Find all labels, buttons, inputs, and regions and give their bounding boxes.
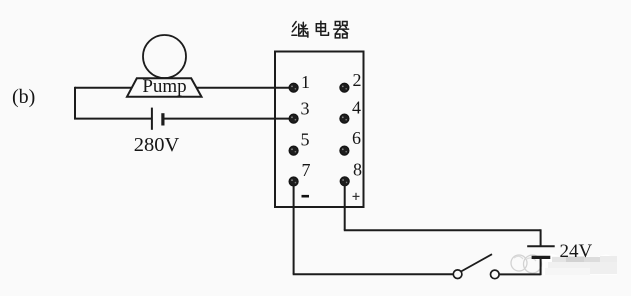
pin 5: [289, 146, 298, 155]
battery B1 long plate: [151, 108, 153, 130]
wire battery-left horizontal: [74, 118, 152, 120]
pump base trapezoid: [127, 78, 202, 96]
minus polarity mark at pin 7: [302, 195, 310, 198]
wire battery bottom vertical: [540, 257, 542, 275]
wire left vertical: [74, 87, 76, 120]
char 器: [334, 22, 349, 38]
svg-text:6: 6: [352, 128, 361, 148]
wire battery-right to pin 3: [164, 118, 294, 120]
svg-text:4: 4: [352, 98, 361, 118]
pin 6: [340, 146, 349, 155]
svg-text:3: 3: [301, 99, 310, 119]
wire pin 7 down: [293, 182, 295, 275]
watermark mosaic blob: [543, 254, 617, 275]
pump motor circle M1: [143, 35, 186, 78]
char 继: [292, 22, 308, 38]
svg-text:(b): (b): [12, 86, 35, 108]
wire switch to battery bottom: [499, 273, 541, 275]
svg-text:1: 1: [301, 72, 310, 92]
svg-text:Pump: Pump: [142, 76, 186, 97]
wire pin 8 horizontal to battery: [344, 229, 541, 231]
pin 4: [340, 114, 349, 123]
pin 2: [340, 83, 349, 92]
pin 7: [289, 177, 298, 186]
wire pump-left horizontal: [75, 87, 134, 89]
pin 1: [289, 83, 298, 92]
svg-text:2: 2: [353, 70, 362, 90]
svg-text:24V: 24V: [560, 241, 593, 262]
wire pump-right to pin 1: [195, 87, 294, 89]
wire bottom horizontal to switch: [293, 273, 454, 275]
switch S1 lever: [461, 254, 492, 271]
battery B2 long plate: [527, 245, 555, 247]
battery B1 short plate: [161, 113, 164, 125]
plus polarity mark at pin 8: [353, 193, 360, 200]
char 电: [316, 21, 328, 35]
svg-text:280V: 280V: [134, 134, 180, 156]
svg-text:8: 8: [353, 160, 362, 180]
pin 8: [340, 177, 349, 186]
relay title 继电器 (drawn glyphs): [292, 21, 349, 38]
pin 3: [289, 114, 298, 123]
wire down to battery top: [540, 229, 542, 246]
switch S1 right contact: [491, 270, 500, 279]
svg-text:7: 7: [302, 160, 311, 180]
wire pin 8 down: [344, 181, 346, 230]
watermark remnant circles: [511, 255, 542, 273]
svg-text:5: 5: [301, 130, 310, 150]
switch S1 left contact: [453, 270, 462, 279]
battery B2 short plate: [532, 256, 551, 259]
relay box K1: [275, 52, 364, 208]
